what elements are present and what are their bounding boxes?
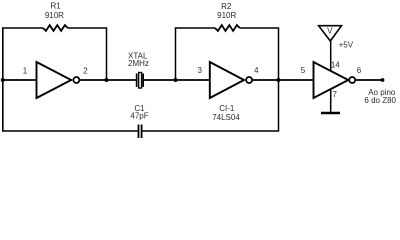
svg-text:+5V: +5V [339,41,354,50]
svg-text:74LS04: 74LS04 [212,113,240,122]
svg-text:7: 7 [332,90,337,99]
wire: input to pin 1 [3,79,37,81]
svg-text:6: 6 [357,66,362,75]
wire: pin 14 to +5V [330,41,332,71]
wire: bottom rail left of C1 [2,130,138,132]
svg-text:R2: R2 [221,2,232,11]
resistor R1 [43,25,68,31]
svg-text:1: 1 [23,66,28,75]
svg-text:14: 14 [331,61,340,70]
wire: loop2 right vertical down to bottom wire [278,28,280,131]
svg-text:R1: R1 [50,2,61,11]
svg-text:CI-1: CI-1 [219,104,235,113]
wire: loop2 top right segment [240,27,279,29]
wire: pin 7 to ground [330,89,332,112]
wire: pin 4 output to pin 5 [253,79,314,81]
wire: pin 6 output [356,79,383,81]
bubble of inverter U3 [349,77,355,83]
op-amp U1 inverter (74LS04 gate A) [37,62,72,98]
wire: pin 2 output to crystal [80,79,136,81]
crystal XTAL symbol [136,74,138,87]
op-amp U2 inverter (74LS04 gate B) [210,62,244,98]
node: junction at left rail and input wire [1,78,5,82]
svg-text:910R: 910R [45,11,64,20]
node: junction loop2 right at output wire [277,78,281,82]
svg-text:2: 2 [83,66,88,75]
wire: left rail vertical [2,28,4,131]
resistor R2 [215,25,240,31]
svg-text:5: 5 [301,66,306,75]
svg-text:3: 3 [197,66,202,75]
ground [321,112,340,115]
svg-text:6 do Z80: 6 do Z80 [364,96,396,105]
wire: loop2 top left segment [175,27,215,29]
wire: crystal to pin 3 [144,79,210,81]
node: junction feedback loop1 at output [105,78,109,82]
svg-text:47pF: 47pF [130,111,148,120]
bubble of inverter U1 [73,77,79,83]
capacitor C1 [138,125,140,139]
svg-text:910R: 910R [217,11,236,20]
wire: loop2 left vertical [175,28,177,80]
wire: loop1 top left segment [2,27,43,29]
node: junction loop2 left at input wire [174,78,178,82]
op-amp U3 inverter (74LS04 gate C) [314,62,349,98]
svg-text:4: 4 [254,66,259,75]
svg-text:2MHz: 2MHz [128,59,149,68]
node: output endpoint dot [381,78,385,82]
wire: loop1 right vertical [106,28,108,80]
wire: bottom rail right of C1 [142,130,279,132]
svg-text:V: V [327,27,333,36]
wire: loop1 top right segment [68,27,107,29]
power +5V symbol (inverted triangle) [319,26,342,41]
bubble of inverter U2 [246,77,252,83]
